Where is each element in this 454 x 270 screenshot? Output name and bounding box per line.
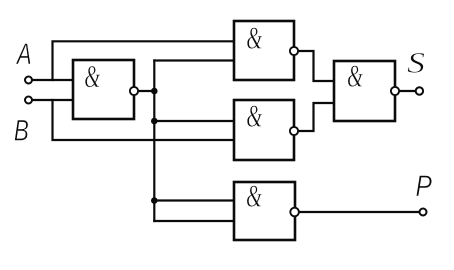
- svg-text:S: S: [407, 46, 425, 79]
- svg-text:&: &: [246, 20, 262, 56]
- svg-text:&: &: [246, 98, 262, 134]
- svg-text:&: &: [347, 58, 363, 94]
- svg-text:A: A: [15, 37, 31, 71]
- svg-text:&: &: [84, 59, 100, 95]
- svg-text:&: &: [246, 178, 262, 214]
- svg-text:P: P: [416, 169, 433, 203]
- svg-text:B: B: [14, 113, 29, 147]
